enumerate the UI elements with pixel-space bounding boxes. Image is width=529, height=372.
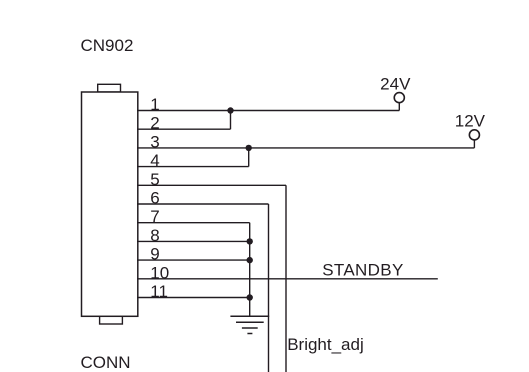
svg-text:CONN: CONN	[81, 353, 131, 372]
svg-text:12V: 12V	[455, 112, 486, 131]
svg-text:Bright_adj: Bright_adj	[287, 335, 364, 354]
svg-text:6: 6	[150, 189, 159, 208]
svg-text:7: 7	[150, 207, 159, 226]
svg-text:11: 11	[150, 282, 168, 301]
svg-text:24V: 24V	[380, 75, 411, 94]
svg-text:5: 5	[150, 170, 159, 189]
svg-text:2: 2	[150, 114, 159, 133]
svg-text:10: 10	[150, 263, 169, 282]
svg-text:9: 9	[150, 245, 159, 264]
svg-text:3: 3	[150, 132, 159, 151]
svg-text:CN902: CN902	[81, 36, 134, 55]
svg-text:4: 4	[150, 151, 159, 170]
svg-text:8: 8	[150, 226, 159, 245]
svg-text:STANDBY: STANDBY	[322, 261, 403, 280]
svg-text:1: 1	[150, 95, 159, 114]
